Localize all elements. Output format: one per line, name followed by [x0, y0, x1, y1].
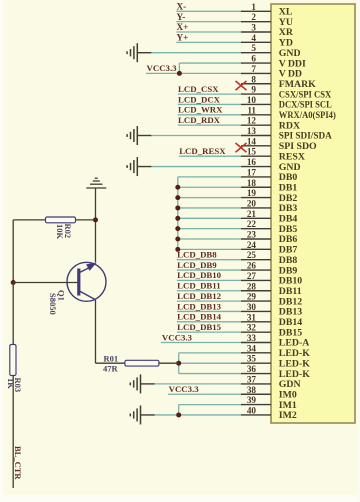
wire net Y+ to pin 4	[176, 41, 241, 43]
pin 29 stub	[241, 300, 271, 302]
wire DB5 to pin 22	[178, 228, 241, 230]
svg-text:12: 12	[247, 116, 257, 126]
svg-text:20: 20	[247, 198, 257, 208]
wire LED-K to pin 35	[179, 362, 241, 364]
wire net LCD_WRX to pin 11	[178, 114, 241, 116]
pin 10 stub	[241, 103, 271, 105]
svg-text:LCD_DB10: LCD_DB10	[177, 270, 222, 280]
svg-text:VCC3.3: VCC3.3	[147, 63, 178, 73]
svg-text:27: 27	[247, 271, 257, 281]
wire net LCD_DB8 to pin 25	[177, 259, 241, 261]
svg-text:DB13: DB13	[279, 307, 303, 318]
svg-text:32: 32	[247, 323, 257, 333]
wire VCC3.3 vertical pin6-pin7	[178, 63, 180, 73]
svg-text:DB6: DB6	[279, 234, 298, 245]
wire GND to pin 16	[150, 166, 241, 168]
resistor R03 body	[10, 345, 16, 376]
svg-text:LED-A: LED-A	[279, 338, 309, 349]
svg-text:SPI SDO: SPI SDO	[279, 141, 317, 152]
svg-text:LCD_DB8: LCD_DB8	[177, 250, 217, 260]
svg-text:LCD_WRX: LCD_WRX	[178, 105, 223, 115]
svg-text:1: 1	[251, 2, 256, 12]
svg-text:LED-K: LED-K	[279, 369, 310, 380]
pin 3 stub	[241, 31, 271, 33]
junction DB tie row 23	[175, 237, 180, 242]
pin 31 stub	[241, 321, 271, 323]
svg-text:29: 29	[247, 292, 257, 302]
wire R03 to BL_CTR	[12, 376, 14, 489]
svg-text:DB9: DB9	[279, 265, 298, 276]
svg-text:IM0: IM0	[279, 389, 297, 400]
svg-text:LCD_RESX: LCD_RESX	[179, 146, 226, 156]
wire GND to pin 40	[153, 414, 241, 416]
svg-text:LCD_DB12: LCD_DB12	[177, 291, 222, 301]
wire DB7 to pin 24	[178, 248, 241, 250]
wire GND to pin 13	[150, 135, 241, 137]
junction DB tie row 19	[175, 195, 180, 200]
svg-text:LCD_DCX: LCD_DCX	[178, 94, 221, 104]
pin 14 stub	[241, 145, 271, 147]
pin 16 stub	[241, 166, 271, 168]
wire net Y- to pin 2	[176, 21, 241, 23]
junction DB tie row 21	[175, 216, 180, 221]
no-ERC cross pin 14	[236, 143, 247, 152]
pin 40 stub	[241, 414, 271, 416]
pin 1 stub	[241, 10, 271, 12]
pin 20 stub	[241, 207, 271, 209]
wire DB0 to pin 17	[178, 176, 241, 178]
svg-text:36: 36	[247, 364, 257, 374]
svg-text:DB11: DB11	[279, 286, 302, 297]
pin 4 stub	[241, 41, 271, 43]
wire DB4 to pin 21	[178, 217, 241, 219]
svg-text:BL_CTR: BL_CTR	[13, 446, 23, 480]
wire LED-K tie vertical	[178, 353, 180, 374]
svg-text:DB8: DB8	[279, 255, 298, 266]
wire Q1 collector vertical	[95, 300, 97, 363]
svg-text:WRX/A0(SPI4): WRX/A0(SPI4)	[279, 110, 336, 121]
svg-text:CSX/SPI CSX: CSX/SPI CSX	[279, 89, 332, 100]
transistor Q1 S8050	[67, 262, 106, 301]
resistor R01 body	[125, 360, 159, 366]
svg-text:DB15: DB15	[279, 327, 303, 338]
pin 6 stub	[241, 62, 271, 64]
svg-text:34: 34	[247, 343, 257, 353]
svg-text:3: 3	[251, 23, 256, 33]
svg-text:39: 39	[247, 395, 257, 405]
ground above Q1 (earth style)	[86, 178, 106, 188]
svg-text:LCD_DB14: LCD_DB14	[177, 312, 222, 322]
ground GND pin 5	[127, 43, 151, 62]
svg-text:26: 26	[247, 261, 257, 271]
wire Q1 emitter to ground	[95, 188, 97, 220]
svg-text:47R: 47R	[103, 364, 119, 374]
svg-text:17: 17	[247, 167, 257, 177]
svg-text:GDN: GDN	[279, 379, 301, 390]
pin 13 stub	[241, 135, 271, 137]
pin 33 stub	[241, 342, 271, 344]
pin 27 stub	[241, 279, 271, 281]
wire net LCD_CSX to pin 9	[178, 93, 241, 95]
wire net LCD_RDX to pin 12	[178, 124, 241, 126]
svg-text:DB0: DB0	[279, 172, 298, 183]
wire R02 right lead	[76, 219, 94, 221]
pin 12 stub	[241, 124, 271, 126]
svg-text:GND: GND	[279, 162, 301, 173]
svg-text:XR: XR	[279, 27, 294, 38]
pin 2 stub	[241, 21, 271, 23]
wire net LCD_DB11 to pin 28	[177, 290, 241, 292]
svg-text:V DDI: V DDI	[279, 58, 306, 69]
junction VCC3.3 node	[177, 71, 182, 76]
svg-text:38: 38	[247, 385, 257, 395]
svg-text:37: 37	[247, 374, 257, 384]
svg-text:40: 40	[247, 405, 257, 415]
svg-text:VCC3.3: VCC3.3	[169, 384, 200, 394]
svg-text:18: 18	[247, 178, 257, 188]
svg-text:35: 35	[247, 354, 257, 364]
wire VCC3.3 to pin 33 (LED-A)	[161, 342, 241, 344]
pin 5 stub	[241, 52, 271, 54]
svg-text:15: 15	[247, 147, 257, 157]
wire GND to pin 37	[153, 383, 241, 385]
ground GND pins 39-40	[130, 405, 154, 424]
wire net LCD_DB9 to pin 26	[177, 269, 241, 271]
pin 39 stub	[241, 404, 271, 406]
svg-text:LCD_DB9: LCD_DB9	[177, 260, 217, 270]
svg-text:X-: X-	[177, 2, 187, 12]
svg-text:DB5: DB5	[279, 224, 298, 235]
svg-text:DB1: DB1	[279, 182, 298, 193]
svg-text:25: 25	[247, 250, 257, 260]
svg-text:4: 4	[251, 33, 256, 43]
junction R02-emitter node	[93, 217, 98, 222]
wire net LCD_DB10 to pin 27	[177, 279, 241, 281]
svg-text:X+: X+	[177, 22, 189, 32]
svg-text:LED-K: LED-K	[279, 358, 310, 369]
pin 22 stub	[241, 228, 271, 230]
svg-text:30: 30	[247, 302, 257, 312]
svg-text:LED-K: LED-K	[279, 348, 310, 359]
svg-text:23: 23	[247, 230, 257, 240]
svg-text:8: 8	[251, 74, 256, 84]
svg-text:DB14: DB14	[279, 317, 303, 328]
pin 19 stub	[241, 197, 271, 199]
svg-text:YU: YU	[279, 17, 293, 28]
wire Q1 emitter vertical	[95, 220, 97, 263]
svg-text:DCX/SPI SCL: DCX/SPI SCL	[279, 100, 332, 111]
wire IM1-IM2 tie vertical	[178, 405, 180, 415]
svg-text:FMARK: FMARK	[279, 79, 316, 90]
pin 34 stub	[241, 352, 271, 354]
svg-text:V DD: V DD	[279, 69, 302, 80]
wire net LCD_RESX to pin 15	[179, 155, 241, 157]
wire net X+ to pin 3	[176, 31, 241, 33]
svg-text:IM1: IM1	[279, 400, 297, 411]
svg-text:22: 22	[247, 219, 257, 229]
pin 24 stub	[241, 248, 271, 250]
wire VCC3.3 to pin 6 (VDDI)	[179, 62, 241, 64]
wire net LCD_DB12 to pin 29	[177, 300, 241, 302]
pin 37 stub	[241, 383, 271, 385]
svg-text:16: 16	[247, 157, 257, 167]
wire GND to pin 5	[150, 52, 241, 54]
svg-text:19: 19	[247, 188, 257, 198]
pin 11 stub	[241, 114, 271, 116]
connector J1 body	[271, 4, 355, 423]
wire DB6 to pin 23	[178, 238, 241, 240]
pin 17 stub	[241, 176, 271, 178]
pin 25 stub	[241, 259, 271, 261]
wire LED-K to pin 34	[179, 352, 241, 354]
wire base to R03	[12, 283, 14, 345]
svg-text:XL: XL	[279, 7, 293, 18]
wire DB0-DB7 tie vertical	[177, 177, 179, 249]
wire R02 left lead	[13, 219, 45, 221]
svg-text:DB10: DB10	[279, 276, 303, 287]
svg-text:33: 33	[247, 333, 257, 343]
svg-text:LCD_CSX: LCD_CSX	[178, 84, 219, 94]
pin 23 stub	[241, 238, 271, 240]
pin 9 stub	[241, 93, 271, 95]
pin 26 stub	[241, 269, 271, 271]
svg-text:10: 10	[247, 95, 257, 105]
wire net LCD_DCX to pin 10	[178, 103, 241, 105]
wire net LCD_DB14 to pin 31	[177, 321, 241, 323]
pin 32 stub	[241, 331, 271, 333]
junction LED-K node	[176, 361, 181, 366]
svg-text:LCD_DB11: LCD_DB11	[177, 281, 221, 291]
svg-text:RDX: RDX	[279, 120, 300, 131]
junction DB tie row 18	[175, 185, 180, 190]
svg-text:2: 2	[251, 12, 256, 22]
wire DB2 to pin 19	[178, 197, 241, 199]
svg-text:1K: 1K	[6, 378, 16, 389]
wire net X- to pin 1	[176, 10, 241, 12]
svg-text:LCD_RDX: LCD_RDX	[178, 115, 221, 125]
wire LED-K to pin 36	[179, 373, 241, 375]
wire IM1 to pin 39	[179, 404, 241, 406]
svg-text:DB7: DB7	[279, 245, 298, 256]
pin 35 stub	[241, 362, 271, 364]
svg-text:RESX: RESX	[279, 151, 305, 162]
junction base node	[11, 280, 16, 285]
svg-text:11: 11	[247, 105, 256, 115]
svg-text:13: 13	[247, 126, 257, 136]
svg-text:YD: YD	[279, 38, 293, 49]
wire VCC3.3 to pin 38 (IM0)	[168, 393, 241, 395]
svg-text:DB3: DB3	[279, 203, 298, 214]
no-ERC cross pin 8	[236, 81, 247, 90]
pin 7 stub	[241, 72, 271, 74]
svg-text:SPI SDI/SDA: SPI SDI/SDA	[279, 131, 332, 142]
svg-text:S8050: S8050	[48, 293, 58, 315]
svg-text:14: 14	[247, 136, 257, 146]
svg-text:DB4: DB4	[279, 214, 298, 225]
junction DB tie row 24	[175, 247, 180, 252]
pin 30 stub	[241, 310, 271, 312]
pin 21 stub	[241, 217, 271, 219]
svg-text:DB2: DB2	[279, 193, 298, 204]
svg-text:LCD_DB13: LCD_DB13	[177, 301, 222, 311]
wire DB3 to pin 20	[178, 207, 241, 209]
resistor R02 body	[46, 217, 76, 223]
pin 28 stub	[241, 290, 271, 292]
wire R01 to LED-K node	[159, 362, 179, 364]
ground GND pin 37	[130, 374, 154, 393]
svg-text:24: 24	[247, 240, 257, 250]
svg-text:R01: R01	[104, 354, 119, 364]
svg-text:DB12: DB12	[279, 296, 303, 307]
svg-text:31: 31	[247, 312, 257, 322]
wire net LCD_DB13 to pin 30	[177, 310, 241, 312]
ground GND pin 16	[127, 157, 151, 176]
svg-text:GND: GND	[279, 48, 301, 59]
svg-text:LCD_DB15: LCD_DB15	[177, 322, 222, 332]
junction DB tie row 22	[175, 226, 180, 231]
wire DB1 to pin 18	[178, 186, 241, 188]
wire base wire	[13, 282, 77, 284]
svg-text:9: 9	[251, 85, 256, 95]
pin 15 stub	[241, 155, 271, 157]
wire base pull vertical	[12, 220, 14, 283]
pin 38 stub	[241, 393, 271, 395]
junction IM tie node	[176, 412, 181, 417]
ground GND pin 13	[127, 126, 151, 145]
svg-text:Y-: Y-	[177, 12, 186, 22]
svg-text:21: 21	[247, 209, 257, 219]
svg-text:6: 6	[251, 54, 256, 64]
svg-text:VCC3.3: VCC3.3	[162, 332, 193, 342]
junction DB tie row 20	[175, 205, 180, 210]
svg-text:IM2: IM2	[279, 410, 297, 421]
wire VCC3.3 to pin 7 (VDD)	[146, 72, 241, 74]
pin 36 stub	[241, 373, 271, 375]
svg-text:7: 7	[251, 64, 256, 74]
svg-text:10K: 10K	[55, 224, 65, 240]
svg-text:5: 5	[251, 43, 256, 53]
wire net LCD_DB15 to pin 32	[177, 331, 241, 333]
pin 18 stub	[241, 186, 271, 188]
pin 8 stub	[241, 83, 271, 85]
wire collector to R01	[96, 362, 125, 364]
svg-text:28: 28	[247, 281, 257, 291]
svg-text:Y+: Y+	[177, 33, 189, 43]
